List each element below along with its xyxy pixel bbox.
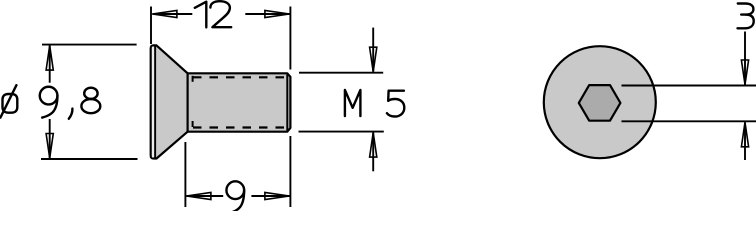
dim M5: top extension line [299, 72, 383, 74]
dim text 3 [738, 4, 754, 29]
thread dashed line bottom [193, 126, 286, 128]
dim text diameter 9,8 [0, 85, 100, 119]
head outline [151, 45, 188, 158]
dim 9.8: top arrow [46, 46, 53, 71]
digit 9 [40, 87, 58, 105]
dim 12: left arrow [152, 10, 177, 17]
thread runout dash bottom [192, 121, 194, 129]
dim 3: bottom extension line [622, 120, 756, 122]
digit 8 [84, 88, 97, 99]
thread chamfer line at tip [286, 74, 288, 130]
dim 9: right arrow [265, 192, 290, 199]
dim 3: bottom arrow pointing up [741, 122, 748, 147]
dim M5: bottom extension line [299, 131, 384, 133]
comma [69, 109, 73, 119]
front view: head circle [544, 46, 656, 158]
dim M5: bottom arrow pointing up [370, 133, 377, 158]
head rim line [154, 46, 156, 158]
dim 9: left extension line [184, 142, 186, 207]
screw body side view: countersunk head cone [151, 45, 291, 158]
thread dashed line top [193, 76, 286, 78]
dim 12: right arrow [265, 10, 290, 17]
dim 12: left extension line [150, 7, 152, 45]
dim 3: top extension line [622, 85, 756, 87]
front view: hex socket [579, 85, 621, 121]
dim text M 5 [345, 90, 404, 117]
dim 3: top arrow pointing down [741, 60, 748, 85]
dim 9.8: bottom extension line [41, 158, 138, 160]
dim text 9 [226, 181, 244, 212]
dim 9: left arrow [186, 192, 211, 199]
dim 9.8: top extension line [42, 44, 137, 46]
shank / threaded shaft [188, 73, 291, 131]
diameter symbol [3, 94, 18, 113]
dim 9.8: bottom arrow [46, 134, 53, 159]
thread runout dash top [192, 76, 194, 84]
dim M5: top arrow pointing down [370, 47, 377, 71]
dim text 12 [195, 1, 231, 27]
head rim highlight strip [152, 47, 154, 158]
dim 12: right extension line (above shaft) [289, 7, 291, 70]
dim 9: right extension line (below shaft) [289, 136, 291, 207]
